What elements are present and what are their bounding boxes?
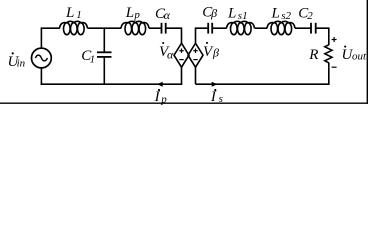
- wire: C2 to load corner: [316, 28, 329, 45]
- svg-text:L: L: [271, 6, 280, 22]
- capacitor C1: [97, 28, 112, 84]
- wire: V_beta bottom lead: [195, 67, 197, 84]
- svg-text:L: L: [227, 6, 236, 22]
- dependent source V_alpha: [174, 43, 189, 67]
- resistor R: [325, 45, 332, 63]
- wire: source bottom lead: [40, 68, 42, 84]
- svg-text:β: β: [212, 45, 219, 59]
- label Ls1: [227, 6, 248, 22]
- capacitor C_alpha: [162, 23, 166, 34]
- svg-text:out: out: [352, 50, 367, 62]
- wire: V_beta top lead to C_beta: [196, 28, 209, 43]
- svg-text:I: I: [210, 89, 217, 105]
- svg-text:p: p: [133, 9, 140, 21]
- svg-text:p: p: [160, 93, 167, 105]
- wire: V_alpha bottom lead: [181, 67, 183, 84]
- wire: top rail left segment: [41, 27, 60, 29]
- label Uin: [8, 52, 26, 70]
- svg-text:β: β: [210, 6, 217, 20]
- wire: Ls2 to C2: [295, 27, 311, 29]
- dependent source V_beta: [188, 43, 203, 67]
- inductor Ls2: [267, 21, 295, 34]
- capacitor C_beta: [208, 23, 212, 34]
- label C1: [81, 48, 95, 65]
- label Is: [210, 89, 223, 105]
- AC source U1: [32, 48, 52, 68]
- label Uout: [342, 46, 368, 63]
- label Ip: [154, 89, 168, 105]
- wire: bottom rail primary: [41, 83, 183, 85]
- label C_alpha: [155, 6, 171, 22]
- wire: top rail L1 to Lp (C1 node): [88, 27, 122, 29]
- svg-text:s2: s2: [281, 10, 291, 22]
- wire: C_beta to Ls1: [212, 27, 226, 29]
- svg-text:s: s: [219, 93, 223, 105]
- svg-text:α: α: [167, 47, 174, 61]
- wire: load bottom lead: [328, 63, 330, 85]
- label L1: [65, 5, 82, 21]
- current arrow Ip: [157, 82, 163, 87]
- label C_beta: [202, 5, 217, 21]
- svg-text:2: 2: [307, 10, 313, 22]
- svg-text:I: I: [154, 89, 161, 105]
- inductor Ls1: [227, 21, 255, 34]
- label C2: [298, 6, 313, 22]
- svg-text:1: 1: [90, 53, 96, 65]
- label Lp: [125, 5, 141, 21]
- inductor Lp: [121, 21, 149, 34]
- svg-text:R: R: [308, 47, 318, 63]
- label Ls2: [271, 6, 292, 22]
- capacitor C2: [311, 23, 316, 34]
- label V_beta: [203, 42, 219, 60]
- svg-text:α: α: [164, 8, 171, 22]
- wire: source top lead: [40, 28, 42, 48]
- svg-text:1: 1: [76, 9, 82, 21]
- svg-text:L: L: [65, 5, 74, 21]
- svg-text:s1: s1: [238, 10, 248, 22]
- inductor L1: [60, 21, 88, 34]
- wire: C_alpha to V_alpha: [166, 28, 182, 43]
- svg-text:L: L: [125, 5, 134, 21]
- label + polarity: [332, 37, 337, 42]
- current arrow Is: [212, 82, 218, 87]
- label V_alpha: [159, 42, 174, 61]
- wire: Ls1 to Ls2: [255, 27, 268, 29]
- wire: bottom rail secondary: [196, 83, 330, 85]
- wire: Lp to C_alpha: [149, 27, 161, 29]
- label - polarity: [332, 66, 337, 68]
- svg-text:in: in: [17, 57, 26, 69]
